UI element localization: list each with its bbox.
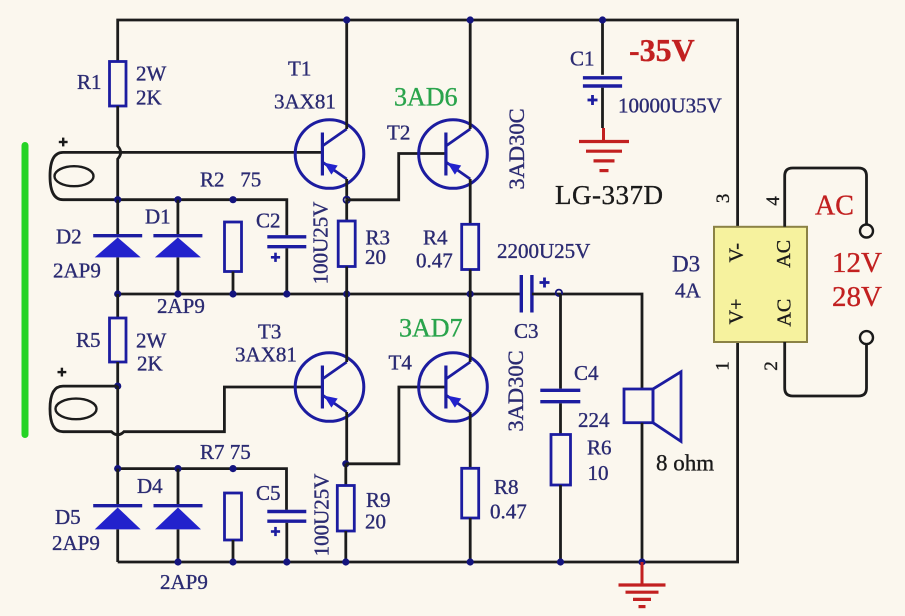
label D3 bbox=[672, 252, 700, 277]
svg-text:3AD30C: 3AD30C bbox=[503, 350, 528, 431]
junction dot T2 collector rail bbox=[467, 16, 474, 23]
label R4 bbox=[423, 226, 448, 250]
svg-text:T2: T2 bbox=[387, 121, 410, 145]
wire bottom ground rail bbox=[118, 342, 738, 562]
input jack J1 opening ellipse bbox=[55, 166, 94, 186]
input jack J2 polarity mark bbox=[58, 368, 67, 377]
svg-text:224: 224 bbox=[578, 408, 610, 432]
junction dot rail2-R5 bbox=[114, 290, 121, 297]
wire C2 bottom bbox=[285, 248, 288, 294]
wire T1 emitter bbox=[345, 179, 348, 200]
junction dot rail4-R7 bbox=[229, 558, 236, 565]
label R1 value 2W bbox=[136, 62, 167, 86]
pin number 4 bbox=[763, 196, 784, 206]
svg-text:R2 75: R2 75 bbox=[200, 168, 261, 192]
svg-text:100U25V: 100U25V bbox=[309, 202, 333, 285]
wire pin2 to AC terminal bbox=[785, 342, 867, 396]
wire R9 bottom bbox=[344, 531, 347, 562]
junction dot rail2-R2 bbox=[229, 290, 236, 297]
wire top supply rail bbox=[118, 20, 738, 227]
junction dot rail4-speaker bbox=[638, 558, 645, 565]
wire R4 bottom bbox=[469, 270, 472, 295]
wire mid output rail bbox=[118, 293, 522, 296]
svg-text:C3: C3 bbox=[514, 319, 539, 343]
resistor R6 bbox=[551, 435, 571, 486]
svg-text:C2: C2 bbox=[256, 209, 281, 233]
junction dot row1-D1 bbox=[174, 196, 181, 203]
label R7 75 bbox=[200, 440, 251, 464]
capacitor C4 bbox=[540, 390, 580, 401]
junction dot T1 collector rail bbox=[343, 16, 350, 23]
svg-text:2W: 2W bbox=[136, 62, 167, 86]
wire R8 bottom bbox=[469, 518, 472, 562]
label T3 type 3AX81 bbox=[235, 343, 297, 367]
wire pin4 to AC terminal bbox=[785, 168, 867, 227]
AC terminal top bbox=[860, 225, 873, 238]
AC terminal bottom bbox=[860, 331, 873, 344]
label 12V bbox=[832, 247, 882, 279]
wire T1 collector bbox=[345, 20, 348, 129]
junction dot rail4-R8 bbox=[467, 558, 474, 565]
input jack J1 body bbox=[50, 152, 323, 199]
svg-text:0.47: 0.47 bbox=[490, 500, 527, 524]
wire D1 top bbox=[176, 200, 179, 234]
green input highlight bar bbox=[22, 142, 29, 438]
svg-text:0.47: 0.47 bbox=[416, 249, 453, 273]
resistor R4 bbox=[462, 224, 479, 269]
wire T1 emitter to T2 base bbox=[347, 154, 447, 200]
svg-text:R9: R9 bbox=[366, 488, 391, 512]
label C3 value 2200U25V bbox=[497, 239, 590, 263]
junction dot row1-D2 bbox=[114, 196, 121, 203]
label C3 bbox=[514, 319, 539, 343]
svg-text:2W: 2W bbox=[136, 329, 167, 353]
label R9 bbox=[366, 488, 391, 512]
svg-text:2AP9: 2AP9 bbox=[53, 259, 101, 283]
label C5 bbox=[256, 481, 281, 505]
capacitor C2 bbox=[267, 237, 306, 247]
wire R1 to bias node (hops over input line) bbox=[118, 106, 121, 200]
wire top bias row bbox=[118, 200, 287, 236]
svg-text:R5: R5 bbox=[76, 328, 101, 352]
svg-text:3AX81: 3AX81 bbox=[274, 90, 336, 114]
label T1 type 3AX81 bbox=[274, 90, 336, 114]
junction dot T3 emitter bbox=[342, 460, 349, 467]
svg-text:R6: R6 bbox=[587, 436, 612, 460]
svg-text:2AP9: 2AP9 bbox=[160, 570, 208, 594]
label 8 ohm bbox=[656, 451, 714, 476]
node C4 tap ring bbox=[556, 290, 562, 296]
junction dot rail4-C5 bbox=[283, 558, 290, 565]
wire R7 bottom bbox=[232, 540, 235, 562]
label R4 value 0.47 bbox=[416, 249, 453, 273]
wire R6 bottom bbox=[559, 485, 562, 562]
label R1 bbox=[77, 70, 102, 94]
label C2 value 100U25V bbox=[309, 202, 333, 285]
wire C4 to R6 bbox=[559, 403, 562, 434]
svg-text:3AD7: 3AD7 bbox=[399, 314, 463, 343]
label D4 value 2AP9 bbox=[160, 570, 208, 594]
wire T4 emitter bbox=[469, 412, 472, 468]
label T2 bbox=[387, 121, 410, 145]
wire bottom bias row bbox=[118, 469, 287, 510]
svg-text:2K: 2K bbox=[137, 352, 163, 376]
resistor R3 bbox=[338, 221, 355, 267]
ground at C1 bbox=[579, 128, 629, 171]
svg-text:T3: T3 bbox=[258, 320, 281, 344]
svg-text:R1: R1 bbox=[77, 70, 102, 94]
label 28V bbox=[832, 281, 882, 313]
wire R2 bottom bbox=[232, 272, 235, 295]
wire T3 emitter to T4 base bbox=[346, 387, 446, 464]
svg-text:T4: T4 bbox=[389, 351, 413, 375]
capacitor C2 polarity + bbox=[271, 253, 280, 262]
input jack J1 polarity mark bbox=[59, 138, 68, 147]
svg-text:C5: C5 bbox=[256, 481, 281, 505]
label R9 value 20 bbox=[365, 510, 386, 534]
wire rail2 to R5 bbox=[116, 294, 119, 318]
transistor T4 bbox=[419, 353, 488, 422]
junction dot rail2-D1 bbox=[174, 290, 181, 297]
label R2 75 bbox=[200, 168, 261, 192]
svg-text:D1: D1 bbox=[145, 205, 171, 229]
capacitor C1 polarity + bbox=[588, 95, 598, 105]
capacitor C1 bbox=[583, 78, 622, 86]
label R8 value 0.47 bbox=[490, 500, 527, 524]
svg-text:R7 75: R7 75 bbox=[200, 440, 251, 464]
pin number 2 bbox=[761, 361, 782, 371]
svg-text:C1: C1 bbox=[570, 47, 595, 71]
svg-text:20: 20 bbox=[365, 510, 386, 534]
wire R9 top bbox=[344, 464, 347, 486]
label R3 bbox=[366, 226, 391, 250]
wire R5 to jack node bbox=[116, 362, 119, 386]
label T1 bbox=[288, 57, 311, 81]
label R6 bbox=[587, 436, 612, 460]
bridge rectifier D3 body bbox=[714, 227, 807, 342]
label D5 bbox=[55, 505, 81, 529]
resistor R8 bbox=[462, 468, 479, 518]
input jack J2 body bbox=[50, 386, 118, 432]
svg-text:2200U25V: 2200U25V bbox=[497, 239, 590, 263]
label R8 bbox=[494, 475, 519, 499]
wire C1 to ground bbox=[601, 88, 604, 128]
svg-text:T1: T1 bbox=[288, 57, 311, 81]
junction dot rail2-C2 bbox=[283, 290, 290, 297]
svg-text:4A: 4A bbox=[675, 279, 702, 303]
pin label V- bbox=[726, 243, 748, 262]
junction dot rail4-D4 bbox=[174, 558, 181, 565]
svg-text:3AD30C: 3AD30C bbox=[504, 108, 529, 189]
resistor R9 bbox=[337, 486, 354, 532]
label C1 value 10000U35V bbox=[618, 94, 722, 118]
junction dot row3-D5 bbox=[114, 465, 121, 472]
wire T2 collector bbox=[469, 20, 472, 129]
label R6 value 10 bbox=[588, 461, 609, 485]
wire R3 bottom bbox=[345, 267, 348, 295]
junction dot rail2-R3 bbox=[343, 290, 350, 297]
ground at output rail bbox=[619, 562, 666, 607]
svg-text:1: 1 bbox=[712, 361, 733, 371]
capacitor C5 polarity + bbox=[271, 527, 280, 536]
label 3AD7 bbox=[399, 314, 463, 343]
diode D5 bbox=[93, 506, 142, 530]
label C5 value 100U25V bbox=[310, 474, 334, 557]
svg-text:8 ohm: 8 ohm bbox=[656, 451, 714, 476]
label C4 value 224 bbox=[578, 408, 610, 432]
svg-text:D4: D4 bbox=[137, 474, 163, 498]
wire T4 collector bbox=[469, 294, 472, 362]
label 3AD6 bbox=[394, 83, 458, 112]
svg-text:3AX81: 3AX81 bbox=[235, 343, 297, 367]
svg-text:2: 2 bbox=[761, 361, 782, 371]
junction dot rail4-R6 bbox=[557, 558, 564, 565]
svg-text:V-: V- bbox=[726, 243, 748, 262]
svg-text:R4: R4 bbox=[423, 226, 448, 250]
svg-text:D2: D2 bbox=[56, 225, 82, 249]
wire T3 emitter bbox=[345, 412, 348, 464]
svg-text:V+: V+ bbox=[726, 299, 748, 325]
svg-text:12V: 12V bbox=[832, 247, 882, 279]
label D5 value 2AP9 bbox=[52, 531, 100, 555]
svg-text:10: 10 bbox=[588, 461, 609, 485]
transistor T3 bbox=[295, 353, 364, 422]
svg-text:D5: D5 bbox=[55, 505, 81, 529]
wire jack2 signal line (hops over vertical) bbox=[63, 387, 322, 435]
label R5 value 2K bbox=[137, 352, 163, 376]
wire D2 bottom bbox=[116, 257, 119, 294]
wire D4 bottom bbox=[177, 529, 180, 562]
wire speaker bottom bbox=[641, 423, 644, 562]
wire D4 top bbox=[177, 469, 180, 504]
pin label AC bottom bbox=[774, 299, 796, 327]
wire D2 top bbox=[116, 200, 119, 234]
svg-text:LG-337D: LG-337D bbox=[555, 180, 663, 210]
diode D1 bbox=[153, 236, 202, 258]
pin label V+ bbox=[726, 299, 748, 325]
svg-text:D3: D3 bbox=[672, 252, 700, 277]
junction dot row1-R2 bbox=[229, 196, 236, 203]
svg-text:100U25V: 100U25V bbox=[310, 474, 334, 557]
wire D5 bottom bbox=[116, 529, 119, 562]
wire C1 top bbox=[601, 20, 604, 75]
label LG-337D bbox=[555, 180, 663, 210]
svg-text:4: 4 bbox=[763, 196, 784, 206]
junction dot row3-D4 bbox=[174, 465, 181, 472]
svg-text:10000U35V: 10000U35V bbox=[618, 94, 722, 118]
svg-text:R8: R8 bbox=[494, 475, 519, 499]
resistor R5 bbox=[110, 318, 127, 362]
pin number 1 bbox=[712, 361, 733, 371]
wire D1 bottom bbox=[176, 257, 179, 294]
wire C4 top bbox=[559, 294, 562, 389]
label D3 value 4A bbox=[675, 279, 702, 303]
capacitor C3 polarity + bbox=[540, 278, 550, 288]
wire D5 top bbox=[116, 469, 119, 504]
label D4 bbox=[137, 474, 163, 498]
speaker LS1 box bbox=[624, 389, 653, 423]
svg-text:20: 20 bbox=[365, 245, 386, 269]
transistor T2 bbox=[419, 120, 488, 189]
pin number 3 bbox=[713, 194, 734, 204]
pin label AC top bbox=[773, 240, 795, 268]
label T2 type 3AD30C bbox=[504, 108, 529, 189]
svg-text:3AD6: 3AD6 bbox=[394, 83, 458, 112]
svg-text:C4: C4 bbox=[574, 361, 599, 385]
diode D2 bbox=[93, 236, 142, 258]
resistor R1 bbox=[110, 62, 127, 107]
svg-text:2AP9: 2AP9 bbox=[157, 294, 205, 318]
junction dot row3-R7 bbox=[229, 465, 236, 472]
junction dot C1 rail bbox=[599, 16, 606, 23]
wire jack2 node down to diode row bbox=[116, 386, 119, 469]
wire T3 collector bbox=[345, 294, 348, 362]
svg-text:AC: AC bbox=[774, 299, 796, 327]
resistor R7 bbox=[225, 493, 242, 540]
label D1 bbox=[145, 205, 171, 229]
input jack J2 opening ellipse bbox=[56, 399, 97, 420]
label C4 bbox=[574, 361, 599, 385]
label R5 value 2W bbox=[136, 329, 167, 353]
label C2 bbox=[256, 209, 281, 233]
svg-text:-35V: -35V bbox=[629, 32, 695, 68]
junction dot rail2-R4 bbox=[467, 290, 474, 297]
label D2 bbox=[56, 225, 82, 249]
svg-text:AC: AC bbox=[815, 191, 854, 222]
label AC bbox=[815, 191, 854, 222]
wire R3 top bbox=[345, 200, 348, 221]
label D1 value 2AP9 bbox=[157, 294, 205, 318]
wire mid rail right of C3 bbox=[532, 294, 642, 389]
transistor T1 bbox=[295, 120, 364, 189]
svg-text:3: 3 bbox=[713, 194, 734, 204]
wire T2 emitter bbox=[469, 179, 472, 224]
node T1 emitter junction bbox=[344, 197, 350, 203]
label R1 value 2K bbox=[136, 86, 162, 110]
svg-text:28V: 28V bbox=[832, 281, 882, 313]
label C1 bbox=[570, 47, 595, 71]
svg-text:2K: 2K bbox=[136, 86, 162, 110]
wire C5 bottom bbox=[285, 523, 288, 562]
speaker LS1 horn bbox=[653, 372, 681, 442]
label R3 value 20 bbox=[365, 245, 386, 269]
label -35V bbox=[629, 32, 695, 68]
label T4 type 3AD30C bbox=[503, 350, 528, 431]
label T4 bbox=[389, 351, 413, 375]
junction dot rail4-R9 bbox=[342, 558, 349, 565]
label T3 bbox=[258, 320, 281, 344]
svg-text:AC: AC bbox=[773, 240, 795, 268]
svg-text:2AP9: 2AP9 bbox=[52, 531, 100, 555]
diode D4 bbox=[154, 506, 203, 530]
junction dot jack2 node bbox=[114, 383, 121, 390]
label R5 bbox=[76, 328, 101, 352]
label D2 value 2AP9 bbox=[53, 259, 101, 283]
capacitor C5 bbox=[267, 512, 306, 522]
capacitor C3 plates bbox=[521, 275, 532, 313]
resistor R2 bbox=[225, 222, 242, 272]
